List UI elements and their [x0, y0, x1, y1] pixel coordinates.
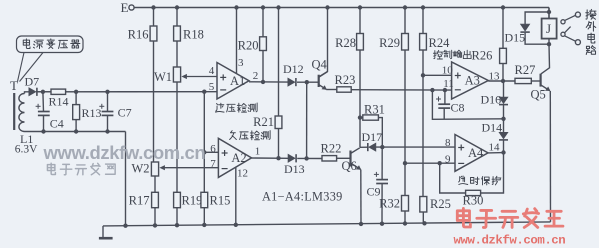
- wire D17 to A4 pin8: [376, 145, 455, 149]
- node E terminal: [121, 0, 135, 15]
- wire R22 to Q6 base: [337, 157, 351, 159]
- inductor L1 winding: [19, 94, 33, 147]
- wire R23 to A3 pin11: [351, 88, 451, 92]
- svg-text:www.dzkfw.com.cn: www.dzkfw.com.cn: [454, 234, 566, 248]
- wire D16 to D14: [501, 105, 505, 133]
- wire relay to Q5 collector: [541, 44, 550, 74]
- wire A1 output: [249, 80, 319, 85]
- wire A2 output: [252, 156, 323, 161]
- svg-text:A3: A3: [465, 74, 480, 88]
- wire sample column to A2 and R15: [202, 92, 206, 193]
- svg-text:D7: D7: [25, 75, 40, 89]
- wire top supply rail: [134, 5, 549, 18]
- svg-text:2: 2: [253, 70, 259, 82]
- svg-text:D14: D14: [482, 121, 503, 135]
- resistor R28: [335, 34, 363, 51]
- label kongzhishuchu 控制输出 and R26: [433, 48, 492, 62]
- diode D14: [482, 121, 509, 140]
- wire R21 column: [278, 8, 280, 117]
- wire rail to R18: [176, 8, 178, 27]
- wire A3 output to Q5 base: [488, 79, 540, 83]
- wire A1 pin3 to rail: [236, 8, 238, 75]
- wire W1 to R19: [176, 82, 178, 192]
- wire secondary bottom line: [25, 129, 126, 225]
- svg-text:R15: R15: [210, 194, 231, 208]
- svg-text:R21: R21: [253, 115, 274, 129]
- label jiewaidianlu 接外电路 external circuit: [586, 9, 596, 54]
- watermark gray 电子开发网: [47, 163, 115, 175]
- svg-text:6.3V: 6.3V: [15, 144, 38, 156]
- wire R20 to A1 output: [262, 51, 264, 82]
- capacitor C8: [432, 90, 503, 119]
- svg-text:A1−A4:LM339: A1−A4:LM339: [262, 190, 343, 204]
- capacitor C4: [36, 92, 64, 132]
- svg-text:12: 12: [237, 168, 248, 180]
- wire rail to R16: [153, 8, 155, 27]
- svg-text:R31: R31: [364, 102, 385, 116]
- resistor R22: [321, 142, 342, 162]
- label guoyajiance 过压检测: [216, 103, 258, 112]
- svg-text:8: 8: [445, 137, 451, 149]
- label qianyajiance 欠压检测: [230, 131, 271, 140]
- svg-text:R19: R19: [182, 194, 203, 208]
- svg-text:R17: R17: [129, 194, 150, 208]
- resistor R18: [174, 26, 204, 42]
- resistor R21: [253, 115, 282, 129]
- transformer T core: [10, 78, 18, 130]
- svg-text:R26: R26: [472, 48, 493, 62]
- svg-text:R22: R22: [321, 142, 342, 156]
- svg-text:R24: R24: [429, 36, 451, 50]
- wire A4 pin9 line: [403, 161, 455, 165]
- resistor R19: [174, 192, 203, 207]
- svg-text:Q4: Q4: [312, 58, 328, 72]
- wire Q5 emitter to ground rail: [549, 91, 551, 222]
- wire W2 to R17: [154, 176, 156, 192]
- svg-text:R30: R30: [463, 194, 484, 208]
- resistor R23: [335, 73, 356, 92]
- label callout 电源变压器 power transformer: [17, 36, 84, 82]
- svg-text:W1: W1: [154, 70, 172, 84]
- svg-text:1: 1: [255, 146, 261, 158]
- capacitor C7: [99, 92, 131, 132]
- svg-text:R28: R28: [335, 36, 356, 50]
- wire R29 down to R32: [404, 50, 406, 196]
- resistor R20: [238, 37, 267, 53]
- svg-text:14: 14: [489, 142, 501, 154]
- transistor Q6: [342, 148, 362, 173]
- resistor R31: [358, 102, 385, 120]
- wire rail to R28: [359, 8, 361, 34]
- relay J: [542, 8, 557, 47]
- red logo 电子开发王: [457, 208, 563, 227]
- op-amp A3: [452, 62, 489, 99]
- svg-text:W2: W2: [131, 162, 149, 176]
- wire D14 to A4 output: [503, 140, 505, 153]
- resistor R29: [379, 34, 408, 51]
- svg-text:D13: D13: [284, 162, 305, 176]
- wire R19 to rail: [176, 208, 178, 226]
- svg-text:11: 11: [443, 78, 454, 90]
- svg-text:J: J: [546, 21, 551, 36]
- diode D17: [360, 130, 382, 151]
- svg-text:R25: R25: [430, 197, 451, 211]
- wire R31 to C9 node: [378, 118, 382, 148]
- wire rail to R24: [422, 8, 424, 34]
- op-amp A4: [455, 135, 488, 172]
- ground symbol: [99, 226, 113, 238]
- resistor R30 feedback: [440, 153, 504, 208]
- resistor R15: [201, 192, 230, 207]
- diode D15: [505, 12, 550, 45]
- wire Q4 collector to rail: [319, 8, 328, 77]
- label yanshibaohu 延时保护: [459, 176, 501, 185]
- wire A2 pin12 to ground rail: [235, 167, 237, 225]
- wire R28 down to Q6 collector node: [359, 50, 361, 147]
- svg-text:D12: D12: [283, 62, 304, 76]
- svg-text:R29: R29: [379, 36, 400, 50]
- wire R16 to W2: [153, 41, 155, 162]
- wire A3 pin10 from R24: [421, 73, 452, 77]
- op-amp A2: [218, 138, 251, 177]
- svg-text:A1: A1: [230, 74, 245, 88]
- resistor R24: [420, 34, 450, 51]
- wire R24 down to R25: [422, 50, 424, 197]
- wire A2 pin6: [204, 151, 218, 153]
- resistor R25: [420, 197, 451, 224]
- capacitor C9: [367, 147, 389, 224]
- svg-text:A2: A2: [231, 151, 246, 165]
- svg-text:R18: R18: [183, 28, 204, 42]
- resistor R26: [500, 48, 507, 63]
- svg-text:D17: D17: [362, 130, 383, 144]
- wire rail to R29: [404, 8, 406, 34]
- wire A4 output node: [488, 150, 506, 154]
- wire ground rail: [103, 221, 551, 228]
- svg-text:C8: C8: [451, 101, 465, 115]
- wire sample node line to A1 pin5: [36, 90, 217, 95]
- svg-text:A4: A4: [468, 146, 484, 160]
- potentiometer W1: [154, 67, 217, 84]
- transistor Q4: [312, 58, 328, 90]
- diode D16: [481, 81, 509, 107]
- svg-text:R14: R14: [49, 95, 69, 109]
- diode D7: [25, 75, 40, 96]
- switch contacts: [561, 12, 581, 45]
- wire Q6 emitter to rail: [360, 170, 362, 224]
- wire R26 column from rail: [502, 8, 504, 49]
- resistor R32: [379, 196, 408, 224]
- diode D12: [283, 62, 304, 86]
- svg-text:D16: D16: [481, 93, 502, 107]
- wire R21 to A2 output: [278, 129, 280, 159]
- svg-text:R27: R27: [515, 63, 536, 77]
- wire R18 to W1: [176, 41, 178, 67]
- wire R15 to rail: [203, 208, 205, 225]
- wire rail to R20: [262, 8, 264, 37]
- svg-text:R13: R13: [82, 106, 102, 120]
- svg-text:www.dzkfw.com.cn: www.dzkfw.com.cn: [43, 142, 206, 163]
- svg-text:R32: R32: [379, 197, 400, 211]
- op-amp A1: [217, 63, 249, 100]
- svg-text:3: 3: [238, 57, 244, 69]
- resistor R13: [73, 92, 102, 132]
- svg-text:R16: R16: [128, 28, 149, 42]
- svg-text:D15: D15: [505, 31, 526, 45]
- wire R26 to A3 output: [502, 64, 504, 82]
- resistor R16: [128, 26, 157, 42]
- svg-text:Q5: Q5: [531, 87, 546, 101]
- svg-text:C4: C4: [50, 117, 64, 131]
- potentiometer W2: [131, 162, 218, 177]
- svg-text:Q6: Q6: [342, 159, 357, 173]
- diode D13: [284, 154, 305, 176]
- resistor R14: [37, 89, 69, 108]
- resistor R27: [515, 63, 536, 84]
- wire R17 to rail: [154, 208, 156, 226]
- svg-text:R20: R20: [238, 39, 259, 53]
- wire Q4 emitter to R23: [326, 89, 337, 91]
- wire D12 node to D13 node: [306, 82, 308, 158]
- svg-text:4: 4: [209, 65, 215, 77]
- svg-text:T: T: [10, 78, 18, 93]
- svg-text:E: E: [121, 0, 129, 15]
- transistor Q5: [531, 74, 551, 102]
- resistor R17: [129, 192, 159, 207]
- svg-text:C7: C7: [118, 106, 132, 120]
- svg-text:R23: R23: [335, 73, 356, 87]
